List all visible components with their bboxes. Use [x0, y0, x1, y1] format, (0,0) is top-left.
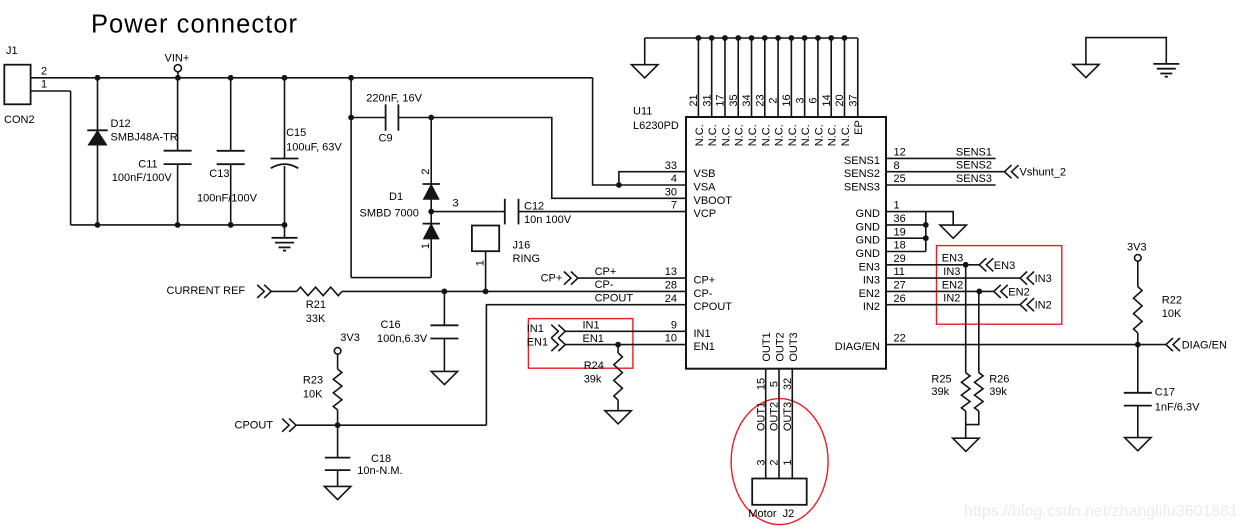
svg-text:35: 35: [728, 94, 740, 106]
wire OUT2 to J2: [778, 369, 780, 479]
wire N.C. pin 3 vertical: [804, 38, 806, 117]
pin name IN1: [694, 328, 711, 340]
svg-text:11: 11: [894, 266, 905, 278]
label R23 value 10K: [303, 388, 323, 400]
wire DIAG/EN: [886, 344, 1166, 346]
svg-text:100nF/100V: 100nF/100V: [197, 193, 258, 205]
pin number 29: [894, 253, 906, 265]
pin name EP (rotated): [853, 120, 865, 135]
label C18 value 10n-N.M.: [357, 465, 402, 477]
svg-text:OUT1: OUT1: [755, 402, 767, 431]
port CPOUT label: [235, 419, 274, 431]
wire C16 to ground: [443, 339, 445, 372]
svg-text:CON2: CON2: [4, 114, 35, 126]
label U11: [633, 106, 652, 118]
wire EN2: [886, 290, 994, 292]
pin name N.C. (rotated): [694, 124, 706, 146]
svg-text:GND: GND: [856, 208, 881, 220]
svg-text:R23: R23: [303, 375, 323, 387]
label C12: [524, 201, 544, 213]
svg-text:N.C.: N.C.: [800, 124, 812, 146]
pin number 15 (rotated): [755, 378, 767, 390]
pin number 27: [894, 279, 906, 291]
port Vshunt_2 arrow: [1005, 165, 1019, 178]
pin name CPOUT: [694, 301, 733, 313]
svg-text:30: 30: [665, 186, 677, 198]
pin name N.C. (rotated): [827, 124, 839, 146]
title: Power connector: [91, 11, 298, 39]
pin number 32 (rotated): [782, 378, 794, 390]
svg-text:7: 7: [671, 200, 677, 212]
net label OUT1 (rotated): [755, 402, 767, 431]
pin number 30: [665, 186, 677, 198]
wire IN2: [886, 304, 1020, 306]
svg-text:R26: R26: [989, 374, 1009, 386]
pin number 8: [894, 160, 900, 172]
svg-text:GND: GND: [856, 235, 881, 247]
wire N.C. pin 23 vertical: [764, 38, 766, 117]
svg-text:C12: C12: [524, 201, 544, 213]
wire GND pin18: [886, 251, 926, 253]
svg-text:R22: R22: [1162, 295, 1182, 307]
capacitor C9: [386, 104, 399, 130]
svg-text:R25: R25: [931, 374, 951, 386]
svg-text:SMBD 7000: SMBD 7000: [360, 207, 419, 219]
pin number 23 (rotated): [754, 94, 766, 106]
svg-text:4: 4: [671, 173, 677, 185]
pin name SENS1: [844, 155, 880, 167]
label C13 value 100nF/100V: [197, 193, 258, 205]
svg-text:C18: C18: [371, 453, 391, 465]
svg-text:1: 1: [782, 459, 794, 465]
svg-text:OUT2: OUT2: [769, 402, 781, 431]
node VIN+ label: [165, 53, 190, 65]
wire N.C. pin 34 vertical: [751, 38, 753, 117]
svg-text:L6230PD: L6230PD: [633, 120, 679, 132]
red box around EN3/IN3/EN2/IN2: [937, 246, 1062, 325]
svg-text:1: 1: [420, 243, 432, 249]
pin number 7: [671, 200, 677, 212]
port CP+ label: [541, 273, 563, 285]
svg-text:39k: 39k: [931, 386, 949, 398]
port CP+ arrow: [564, 272, 578, 285]
svg-text:RING: RING: [513, 253, 541, 265]
net label EN2: [942, 279, 963, 291]
junction C9 right / D1 top: [428, 115, 434, 121]
resistor R23: [333, 369, 342, 410]
label D1: [389, 191, 403, 203]
ground triangle below C17: [1125, 438, 1151, 451]
svg-text:3: 3: [453, 197, 459, 209]
svg-text:EP: EP: [853, 120, 865, 135]
svg-text:GND: GND: [856, 248, 881, 260]
capacitor C11: [164, 151, 192, 164]
svg-text:CURRENT REF: CURRENT REF: [167, 285, 246, 297]
svg-text:25: 25: [894, 173, 906, 185]
svg-text:SENS3: SENS3: [956, 173, 992, 185]
svg-text:19: 19: [894, 226, 906, 238]
junction N.C. bus 34: [749, 35, 755, 41]
op-chip U11 L6230PD outline: [686, 117, 886, 369]
net label OUT3 (rotated): [782, 402, 794, 431]
port CURRENT REF label: [167, 285, 246, 297]
wire C13 to bottom rail: [230, 164, 232, 225]
label R21 value 33K: [306, 313, 326, 325]
wire 3V3 to R22: [1137, 261, 1139, 286]
net label IN1: [583, 319, 600, 331]
pin number 14 (rotated): [821, 94, 833, 106]
svg-text:34: 34: [741, 94, 753, 106]
svg-text:N.C.: N.C.: [747, 124, 759, 146]
junction N.C. bus 21: [696, 35, 702, 41]
power 3V3 label (left): [340, 332, 360, 344]
svg-text:VSB: VSB: [694, 168, 716, 180]
svg-text:23: 23: [754, 94, 766, 106]
junction C9 branch on rail: [348, 75, 354, 81]
wire rail to C15: [284, 78, 286, 159]
capacitor C17: [1124, 393, 1152, 406]
net label SENS3: [956, 173, 992, 185]
svg-text:IN2: IN2: [943, 293, 960, 305]
svg-text:3: 3: [794, 97, 806, 103]
svg-text:1: 1: [41, 79, 47, 91]
svg-text:N.C.: N.C.: [694, 124, 706, 146]
svg-text:IN1: IN1: [583, 319, 600, 331]
label C11 value 100nF/100V: [112, 172, 173, 184]
wire N.C. pin 35 vertical: [737, 38, 739, 117]
net label SENS1: [956, 146, 992, 158]
diode D1 lower: [423, 224, 440, 239]
svg-text:10n-N.M.: 10n-N.M.: [357, 465, 402, 477]
pin name DIAG/EN: [835, 341, 880, 353]
port IN3 arrow: [1020, 272, 1034, 285]
red ellipse around motor connector: [731, 399, 828, 525]
svg-text:OUT3: OUT3: [788, 332, 800, 361]
junction C13 on rail: [228, 75, 234, 81]
label R24: [584, 360, 604, 372]
pin number 19: [894, 226, 906, 238]
svg-text:10: 10: [665, 333, 677, 345]
label C13: [209, 168, 229, 180]
pin number 25: [894, 173, 906, 185]
junction D12 on rail: [95, 75, 101, 81]
wire GND bus vertical: [925, 212, 927, 252]
pin number 28: [665, 279, 677, 291]
wire OUT3 to J2: [791, 369, 793, 479]
wire EN3 down to R25: [965, 265, 967, 373]
pin number 3 (rotated): [794, 97, 806, 103]
svg-text:29: 29: [894, 253, 906, 265]
svg-text:28: 28: [665, 279, 677, 291]
wire SENS1: [886, 157, 996, 159]
label C18: [371, 453, 391, 465]
svg-text:26: 26: [894, 293, 906, 305]
svg-text:CPOUT: CPOUT: [595, 292, 634, 304]
wire D1 return horizontal: [351, 277, 431, 279]
junction N.C. bus 31: [709, 35, 715, 41]
wire DIAG/EN net to C17: [1137, 345, 1139, 393]
pin number 10: [665, 333, 677, 345]
svg-text:OUT3: OUT3: [782, 402, 794, 431]
pin number 35 (rotated): [728, 94, 740, 106]
power 3V3 circle (right): [1135, 255, 1142, 262]
label Motor J2: [748, 508, 794, 520]
diode D1 upper: [423, 184, 440, 199]
port CPOUT arrow: [282, 419, 296, 432]
svg-text:EN3: EN3: [994, 260, 1015, 272]
svg-text:C17: C17: [1155, 387, 1175, 399]
svg-text:C13: C13: [209, 168, 229, 180]
pin name GND: [856, 208, 881, 220]
svg-text:9: 9: [671, 319, 677, 331]
junction N.C. bus 16: [788, 35, 794, 41]
ground earth below C15: [272, 225, 298, 251]
svg-text:10n 100V: 10n 100V: [524, 214, 572, 226]
pin name IN3: [863, 275, 880, 287]
svg-text:IN2: IN2: [863, 301, 880, 313]
svg-text:SENS2: SENS2: [956, 160, 992, 172]
pin number 37 (rotated): [847, 94, 859, 106]
wire GND pin36: [886, 224, 926, 226]
junction J16 on CP- net: [483, 289, 489, 295]
label RING: [513, 253, 541, 265]
svg-text:N.C.: N.C.: [720, 124, 732, 146]
port EN3 arrow: [979, 258, 993, 271]
label R23: [303, 375, 323, 387]
wire EN1 to R24: [617, 345, 619, 353]
svg-text:1: 1: [474, 260, 486, 266]
pin name OUT3 (rotated): [788, 332, 800, 361]
resistor R26: [975, 373, 984, 411]
svg-text:100n,6.3V: 100n,6.3V: [377, 333, 428, 345]
svg-text:U11: U11: [633, 106, 652, 118]
junction N.C. bus 23: [762, 35, 768, 41]
wire R21 to CP- pin: [342, 290, 686, 292]
wire OUT1 to J2: [765, 369, 767, 479]
pin number 6 (rotated): [808, 97, 820, 103]
pin name N.C. (rotated): [813, 124, 825, 146]
net label EN1: [583, 333, 604, 345]
svg-text:20: 20: [834, 94, 846, 106]
pin number 2 (rotated): [768, 97, 780, 103]
svg-text:N.C.: N.C.: [734, 124, 746, 146]
port IN1 arrow: [551, 325, 565, 338]
wire C18 to ground: [337, 470, 339, 486]
svg-text:10K: 10K: [1162, 308, 1182, 320]
wire N.C. pin 6 vertical: [817, 38, 819, 117]
ground triangle below C18: [324, 486, 350, 499]
wire C9 right lead: [398, 117, 431, 119]
port DIAG/EN arrow: [1166, 338, 1180, 351]
wire EN3: [886, 264, 979, 266]
label R21: [306, 299, 326, 311]
wire EN1 to pin: [565, 344, 686, 346]
pin number 9: [671, 319, 677, 331]
wire C11 to bottom rail: [177, 164, 179, 225]
pin name VBOOT: [694, 195, 733, 207]
svg-text:2: 2: [768, 97, 780, 103]
svg-text:N.C.: N.C.: [840, 124, 852, 146]
pin number 34 (rotated): [741, 94, 753, 106]
pin number 16 (rotated): [781, 94, 793, 106]
J2 pin number 3 (rotated): [755, 459, 767, 465]
wire rail to C11: [177, 78, 179, 151]
junction GND36: [923, 222, 929, 228]
label C16: [381, 319, 401, 331]
pin name N.C. (rotated): [734, 124, 746, 146]
ground triangle below R25/R26: [953, 438, 979, 451]
label C16 value 100n,6.3V: [377, 333, 428, 345]
wire IN1 to pin: [565, 330, 686, 332]
svg-text:OUT2: OUT2: [774, 332, 786, 361]
svg-text:J1: J1: [6, 45, 18, 57]
label C15 value 100uF, 63V: [286, 142, 342, 154]
junction D12 on bottom rail: [95, 222, 101, 228]
wire J1 pin1 horizontal: [31, 90, 71, 92]
J2 pin number 2 (rotated): [769, 459, 781, 465]
net label IN2: [943, 293, 960, 305]
pin name CP-: [694, 288, 713, 300]
junction C15 on bottom rail: [282, 222, 288, 228]
pin name N.C. (rotated): [760, 124, 772, 146]
pin name EN2: [859, 288, 880, 300]
ground chassis triangle (top right): [1073, 64, 1099, 77]
svg-text:21: 21: [688, 94, 700, 106]
pin name N.C. (rotated): [774, 124, 786, 146]
pin name IN2: [863, 301, 880, 313]
label C11: [138, 159, 157, 171]
wire C9 node down to D1: [430, 118, 432, 185]
wire N.C. pin 16 vertical: [790, 38, 792, 117]
J1 pin 1 number: [41, 79, 47, 91]
pin number 4: [671, 173, 677, 185]
wire bus left leg to ground: [644, 38, 646, 65]
pin name VSA: [694, 181, 717, 193]
svg-text:EN2: EN2: [1008, 286, 1029, 298]
svg-text:VSA: VSA: [694, 181, 717, 193]
svg-text:100uF, 63V: 100uF, 63V: [286, 142, 342, 154]
svg-text:31: 31: [701, 94, 713, 106]
svg-text:D12: D12: [111, 118, 131, 130]
label C12 value 10n 100V: [524, 214, 572, 226]
D1 pin 2 number: [420, 168, 432, 174]
wire SENS2: [886, 171, 1005, 173]
J1 pin 2 number: [41, 66, 47, 78]
svg-text:SENS1: SENS1: [844, 155, 880, 167]
svg-text:EN1: EN1: [527, 336, 548, 348]
capacitor C12: [505, 199, 519, 225]
svg-text:16: 16: [781, 94, 793, 106]
wire rail to D12: [97, 78, 99, 131]
svg-text:N.C.: N.C.: [707, 124, 719, 146]
svg-text:33: 33: [665, 160, 677, 172]
svg-text:OUT1: OUT1: [761, 332, 773, 361]
svg-text:27: 27: [894, 279, 906, 291]
pin name OUT2 (rotated): [774, 332, 786, 361]
svg-text:14: 14: [821, 94, 833, 106]
svg-text:C9: C9: [379, 133, 393, 145]
port DIAG/EN label: [1182, 340, 1227, 352]
label C17 value 1nF/6.3V: [1155, 402, 1200, 414]
wire C9 node to VBOOT: [431, 118, 686, 199]
pin name EN1: [694, 341, 715, 353]
pin number 11: [894, 266, 905, 278]
junction N.C. bus 20: [842, 35, 848, 41]
pin number 36: [894, 213, 906, 225]
svg-text:33K: 33K: [306, 313, 326, 325]
pin number 13: [665, 266, 677, 278]
label R22: [1162, 295, 1182, 307]
pin number 31 (rotated): [701, 94, 713, 106]
junction C16 top: [442, 289, 448, 295]
D1 pin 3 number: [453, 197, 459, 209]
svg-text:CP+: CP+: [595, 266, 617, 278]
wire D1 bottom to return: [430, 239, 432, 278]
net label CP-: [595, 279, 614, 291]
pin name N.C. (rotated): [747, 124, 759, 146]
resistor R25: [961, 373, 970, 411]
svg-text:R24: R24: [584, 360, 604, 372]
svg-text:5: 5: [769, 381, 781, 387]
wire SENS3: [886, 184, 996, 186]
pin name VCP: [694, 208, 717, 220]
junction C15 on rail: [282, 75, 288, 81]
pin name GND: [856, 235, 881, 247]
svg-text:SMBJ48A-TR: SMBJ48A-TR: [111, 132, 178, 144]
svg-text:39k: 39k: [584, 374, 602, 386]
resistor R22: [1134, 287, 1143, 333]
label R26: [989, 374, 1009, 386]
wire IN3: [886, 277, 1020, 279]
junction EN3/R25: [963, 262, 969, 268]
junction N.C. bus 35: [735, 35, 741, 41]
pin name GND: [856, 248, 881, 260]
label R25 value 39k: [931, 386, 949, 398]
svg-text:CP-: CP-: [595, 279, 614, 291]
label D12: [111, 118, 131, 130]
svg-text:VBOOT: VBOOT: [694, 195, 733, 207]
port EN2 arrow: [994, 285, 1008, 298]
label C9 value 220nF, 16V: [366, 93, 422, 105]
svg-text:CP+: CP+: [541, 273, 563, 285]
wire chassis-earth tie: [1086, 38, 1166, 65]
wire C15 to bottom rail: [284, 166, 286, 225]
svg-text:C16: C16: [381, 319, 401, 331]
label SMBD 7000: [360, 207, 419, 219]
svg-text:C15: C15: [286, 127, 306, 139]
junction GND19: [923, 235, 929, 241]
svg-text:1: 1: [894, 200, 900, 212]
svg-text:CPOUT: CPOUT: [235, 419, 274, 431]
wire bottom GND rail: [71, 224, 285, 226]
capacitor C18: [325, 458, 351, 471]
net label IN3: [943, 266, 960, 278]
ground triangle below R24: [605, 411, 631, 424]
ground triangle for N.C. bus: [632, 65, 658, 78]
port IN1 label: [527, 323, 544, 335]
wire VIN+ rail (J1 pin2 to VSA corner): [31, 77, 593, 79]
pin number 5 (rotated): [769, 381, 781, 387]
svg-text:SENS1: SENS1: [956, 146, 992, 158]
wire N.C. pin 2 vertical: [777, 38, 779, 117]
wire 3V3 to R23: [337, 354, 339, 369]
net label CP+: [595, 266, 617, 278]
svg-text:N.C.: N.C.: [774, 124, 786, 146]
svg-text:N.C.: N.C.: [827, 124, 839, 146]
svg-text:1nF/6.3V: 1nF/6.3V: [1155, 402, 1200, 414]
power 3V3 circle (left): [334, 348, 341, 355]
svg-text:2: 2: [769, 459, 781, 465]
